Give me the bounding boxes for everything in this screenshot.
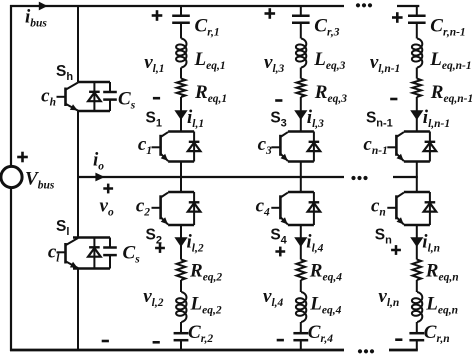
resistor R_eq,n-1 <box>412 79 421 98</box>
label minus v_l,n-1 <box>390 98 397 101</box>
diode of S_1 (antiparallel) <box>193 132 195 162</box>
label minus v_l,1 <box>153 97 160 100</box>
wire rails of S_h <box>78 81 110 83</box>
wire rails of S_1 <box>168 130 194 132</box>
label plus v_l,2 <box>155 243 165 253</box>
transistor S_n IGBT <box>395 195 398 219</box>
wire column n lower stubs <box>416 177 418 192</box>
inductor L_eq,n-1 <box>412 39 422 68</box>
arrow i_l,1 <box>174 110 187 120</box>
capacitor C_r,4 <box>293 332 308 335</box>
wire output bus (middle) <box>78 176 344 178</box>
diode of S_h (antiparallel) <box>93 82 95 111</box>
ellipsis middle bus <box>351 176 367 180</box>
label V_bus plus <box>17 152 28 163</box>
label v_o plus <box>103 184 113 194</box>
diode of S_n (antiparallel) <box>429 192 431 225</box>
wire left rail upper <box>10 5 12 167</box>
ellipsis bottom bus <box>358 349 374 353</box>
inductor L_eq,n <box>412 292 422 322</box>
wire column 3 upper stubs <box>300 6 302 16</box>
wire output bus right segment <box>393 176 418 178</box>
label plus v_l,n <box>391 245 401 255</box>
diode of S_l (antiparallel) <box>93 238 95 269</box>
capacitor C_r,1 <box>172 14 190 17</box>
resistor R_eq,1 <box>177 79 186 98</box>
capacitor C_r,3 <box>292 14 310 17</box>
wire rails of S_l <box>73 236 110 238</box>
diode of S_n-1 (antiparallel) <box>429 132 431 162</box>
label minus v_l,4 <box>277 339 284 342</box>
resistor R_eq,n <box>412 260 421 281</box>
wire left rail lower <box>10 188 12 352</box>
wire column 1 upper stubs <box>180 6 182 16</box>
label minus v_l,3 <box>275 99 282 102</box>
wire bottom bus <box>10 349 344 352</box>
transistor S_h IGBT <box>64 88 67 107</box>
label plus v_l,4 <box>275 247 285 257</box>
capacitor C_s snubber of S_l <box>109 238 111 248</box>
arrow i_l,3 <box>294 110 307 120</box>
inductor L_eq,3 <box>296 39 306 68</box>
capacitor C_r,2 <box>174 332 189 335</box>
transistor S_2 IGBT <box>159 195 162 219</box>
label v_o minus <box>102 340 109 343</box>
wire column n-1 upper stubs <box>416 6 418 16</box>
transistor S_n-1 IGBT <box>395 135 398 156</box>
wire column 2 lower stubs <box>180 177 182 192</box>
diode of S_2 (antiparallel) <box>193 192 195 225</box>
wire switch column <box>77 6 79 82</box>
wire top bus right segment <box>397 5 419 7</box>
resistor R_eq,3 <box>296 79 305 98</box>
label plus v_l,3 <box>265 8 276 19</box>
arrow i_l,n-1 <box>410 110 423 120</box>
transistor S_l IGBT <box>64 243 67 264</box>
arrow i_l,2 <box>174 237 187 247</box>
wire rails of S_3 <box>288 130 314 132</box>
label minus v_l,2 <box>153 341 160 344</box>
wire rails of S_n <box>404 191 430 193</box>
wire rails of S_4 <box>288 191 314 193</box>
inductor L_eq,2 <box>176 292 186 322</box>
wire rails of S_n-1 <box>404 130 430 132</box>
inductor L_eq,4 <box>296 292 306 322</box>
capacitor C_s snubber of S_h <box>109 82 111 92</box>
diode of S_4 (antiparallel) <box>313 192 315 225</box>
ellipsis top bus <box>356 3 372 7</box>
resistor R_eq,4 <box>296 260 305 281</box>
source V_bus <box>1 166 22 187</box>
capacitor C_r,n <box>409 332 424 335</box>
wire rails of S_2 <box>168 191 194 193</box>
arrow i_o <box>95 173 104 182</box>
wire column 4 lower stubs <box>300 177 302 192</box>
inductor L_eq,1 <box>176 39 186 68</box>
diode of S_3 (antiparallel) <box>313 132 315 162</box>
arrow i_l,n <box>410 237 423 247</box>
capacitor C_r,n-1 <box>408 14 426 17</box>
transistor S_3 IGBT <box>279 135 282 156</box>
transistor S_1 IGBT <box>159 135 162 156</box>
label plus v_l,n-1 <box>392 12 403 23</box>
arrow i_bus <box>39 2 48 11</box>
wire top bus <box>10 5 344 7</box>
label minus v_l,n <box>395 338 402 341</box>
resistor R_eq,2 <box>177 260 186 281</box>
label plus v_l,1 <box>152 10 163 21</box>
wire bottom bus right segment <box>389 349 418 352</box>
transistor S_4 IGBT <box>279 195 282 219</box>
arrow i_l,4 <box>294 237 307 247</box>
